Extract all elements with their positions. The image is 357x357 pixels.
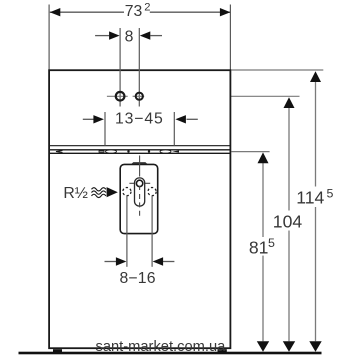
svg-text:8: 8 xyxy=(125,29,134,46)
svg-text:114: 114 xyxy=(296,188,324,208)
svg-text:8−16: 8−16 xyxy=(120,270,156,287)
svg-text:5: 5 xyxy=(268,236,275,250)
svg-text:2: 2 xyxy=(144,2,150,14)
svg-text:5: 5 xyxy=(327,187,334,201)
svg-text:104: 104 xyxy=(273,211,303,231)
svg-text:73: 73 xyxy=(125,3,143,20)
svg-text:R½: R½ xyxy=(63,185,88,202)
svg-text:13−45: 13−45 xyxy=(115,111,164,128)
svg-text:81: 81 xyxy=(249,237,269,257)
